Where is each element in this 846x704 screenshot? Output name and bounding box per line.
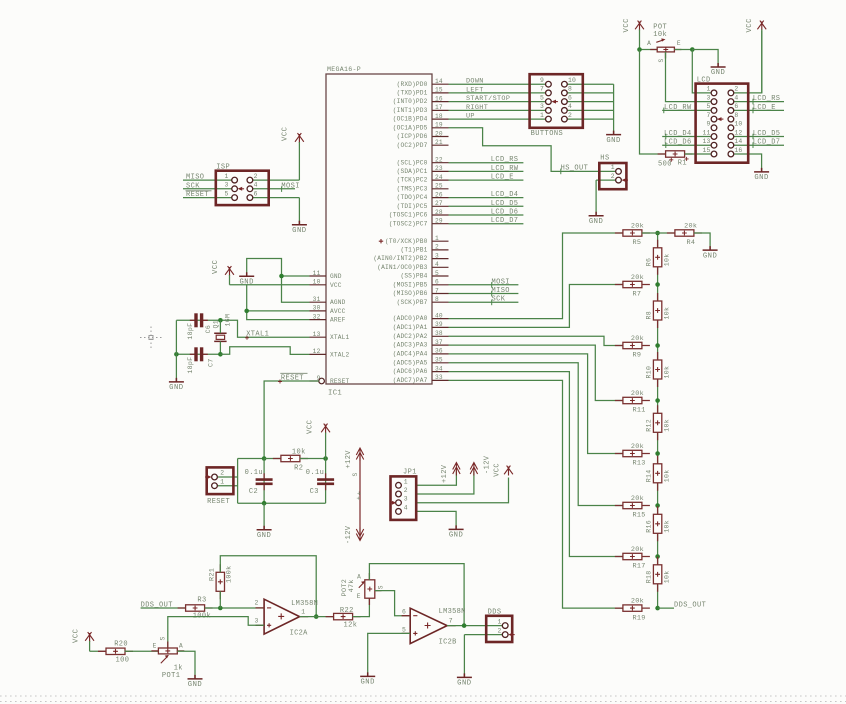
- svg-text:(OC1B)PD4: (OC1B)PD4: [393, 116, 428, 123]
- svg-text:Q1: Q1: [213, 320, 220, 329]
- svg-text:RESET: RESET: [330, 378, 349, 385]
- svg-text:HS: HS: [600, 155, 609, 163]
- svg-text:(ICP)PD6: (ICP)PD6: [397, 133, 428, 140]
- svg-text:C3: C3: [310, 488, 319, 496]
- svg-text:10k: 10k: [664, 571, 671, 584]
- svg-text:1: 1: [540, 112, 544, 119]
- svg-text:0.1u: 0.1u: [245, 469, 263, 477]
- svg-text:VCC: VCC: [307, 419, 315, 434]
- svg-text:R8: R8: [646, 311, 653, 320]
- svg-text:3: 3: [707, 94, 711, 101]
- svg-text:100k: 100k: [225, 565, 233, 583]
- svg-text:AGND: AGND: [330, 299, 346, 306]
- svg-text:38: 38: [435, 330, 443, 337]
- svg-text:20: 20: [435, 130, 443, 137]
- svg-text:IC1: IC1: [328, 390, 342, 398]
- svg-text:5: 5: [435, 270, 439, 277]
- svg-text:4: 4: [254, 182, 258, 189]
- svg-text:2: 2: [611, 173, 615, 180]
- svg-text:7: 7: [540, 86, 544, 93]
- svg-text:(AIN1/OC0)PB3: (AIN1/OC0)PB3: [377, 264, 427, 271]
- svg-text:-12V: -12V: [345, 525, 353, 544]
- svg-text:14: 14: [734, 138, 742, 145]
- svg-text:2: 2: [498, 627, 502, 634]
- svg-text:20k: 20k: [631, 335, 644, 343]
- svg-text:R14: R14: [646, 470, 653, 483]
- svg-text:(T1)PB1: (T1)PB1: [400, 247, 427, 254]
- svg-text:LCD_D4: LCD_D4: [664, 130, 692, 138]
- svg-text:MISO: MISO: [186, 174, 204, 182]
- svg-text:GND: GND: [703, 252, 717, 260]
- svg-text:2: 2: [568, 112, 572, 119]
- svg-text:5: 5: [540, 94, 544, 101]
- svg-text:37: 37: [435, 339, 443, 346]
- svg-text:(TXD)PD1: (TXD)PD1: [397, 90, 428, 97]
- svg-text:15: 15: [435, 87, 443, 94]
- svg-text:12: 12: [313, 348, 321, 355]
- svg-text:(TOSC2)PC7: (TOSC2)PC7: [389, 220, 428, 227]
- svg-text:MOSI: MOSI: [281, 182, 299, 190]
- svg-text:R2: R2: [294, 464, 303, 472]
- svg-text:IC2B: IC2B: [439, 639, 457, 647]
- svg-text:C7: C7: [207, 358, 214, 367]
- svg-text:GND: GND: [188, 681, 202, 689]
- svg-text:VCC: VCC: [73, 628, 81, 643]
- svg-text:4: 4: [404, 504, 408, 511]
- svg-text:DOWN: DOWN: [466, 78, 484, 86]
- svg-text:(TMS)PC3: (TMS)PC3: [397, 185, 428, 192]
- svg-text:GND: GND: [360, 679, 374, 687]
- svg-text:39: 39: [435, 321, 443, 328]
- svg-text:R11: R11: [633, 407, 646, 415]
- svg-text:LCD_D6: LCD_D6: [664, 139, 692, 147]
- svg-text:13: 13: [703, 138, 711, 145]
- svg-text:(TDO)PC4: (TDO)PC4: [397, 194, 428, 201]
- svg-text:20k: 20k: [631, 443, 644, 451]
- svg-text:4: 4: [734, 94, 738, 101]
- svg-text:16M: 16M: [225, 314, 232, 327]
- svg-text:SCK: SCK: [186, 182, 200, 190]
- svg-text:R19: R19: [633, 614, 646, 622]
- svg-text:1: 1: [404, 478, 408, 485]
- svg-text:1: 1: [225, 173, 229, 180]
- svg-text:XTAL2: XTAL2: [330, 351, 349, 358]
- svg-text:20k: 20k: [631, 390, 644, 398]
- svg-text:(ADC5)PA5: (ADC5)PA5: [393, 359, 428, 366]
- svg-text:LCD_RW: LCD_RW: [491, 165, 519, 173]
- svg-text:LM358N: LM358N: [291, 600, 318, 608]
- svg-text:35: 35: [435, 357, 443, 364]
- svg-text:E: E: [153, 643, 157, 650]
- svg-text:7: 7: [707, 112, 711, 119]
- svg-text:16: 16: [734, 147, 742, 154]
- svg-text:2: 2: [734, 86, 738, 93]
- svg-text:5: 5: [707, 103, 711, 110]
- svg-text:VCC: VCC: [282, 126, 290, 141]
- svg-text:R17: R17: [633, 563, 646, 571]
- svg-text:(AIN0/INT2)PB2: (AIN0/INT2)PB2: [373, 255, 427, 262]
- svg-text:2: 2: [220, 470, 224, 477]
- svg-text:3: 3: [540, 103, 544, 110]
- svg-text:8: 8: [435, 296, 439, 303]
- svg-text:33: 33: [435, 374, 443, 381]
- svg-text:VCC: VCC: [330, 282, 342, 289]
- svg-text:8: 8: [734, 112, 738, 119]
- svg-text:26: 26: [435, 191, 443, 198]
- svg-text:LCD_D7: LCD_D7: [491, 217, 519, 225]
- svg-text:8: 8: [568, 86, 572, 93]
- svg-text:12: 12: [734, 129, 742, 136]
- svg-text:GND: GND: [754, 174, 768, 182]
- svg-text:XTAL1: XTAL1: [330, 334, 349, 341]
- svg-text:3: 3: [225, 182, 229, 189]
- svg-text:LCD_RW: LCD_RW: [664, 104, 692, 112]
- svg-text:10k: 10k: [664, 254, 671, 267]
- svg-text:S: S: [160, 637, 167, 641]
- svg-text:GND: GND: [606, 137, 620, 145]
- svg-text:S: S: [658, 59, 665, 63]
- svg-text:(MOSI)PB5: (MOSI)PB5: [393, 281, 428, 288]
- svg-text:30: 30: [313, 305, 321, 312]
- svg-text:RIGHT: RIGHT: [466, 104, 488, 112]
- svg-text:6: 6: [402, 608, 406, 615]
- svg-text:GND: GND: [589, 218, 603, 226]
- svg-text:34: 34: [435, 365, 443, 372]
- svg-text:(RXD)PD0: (RXD)PD0: [397, 81, 428, 88]
- svg-text:R20: R20: [114, 641, 128, 649]
- svg-text:ISP: ISP: [216, 163, 230, 171]
- svg-text:4: 4: [568, 103, 572, 110]
- svg-text:LCD: LCD: [697, 76, 711, 84]
- svg-text:LCD_E: LCD_E: [753, 104, 776, 112]
- svg-text:1: 1: [611, 164, 615, 171]
- svg-text:(ADC7)PA7: (ADC7)PA7: [393, 377, 428, 384]
- svg-text:23: 23: [435, 165, 443, 172]
- svg-text:LCD_D7: LCD_D7: [753, 139, 781, 147]
- svg-text:10k: 10k: [664, 307, 671, 320]
- svg-text:10: 10: [313, 279, 321, 286]
- svg-text:START/STOP: START/STOP: [466, 95, 510, 103]
- svg-text:C6: C6: [205, 325, 212, 334]
- svg-text:19: 19: [435, 122, 443, 129]
- svg-text:SCK: SCK: [492, 296, 506, 304]
- svg-text:(TDI)PC5: (TDI)PC5: [397, 203, 428, 210]
- svg-text:10k: 10k: [292, 449, 306, 457]
- svg-text:(TOSC1)PC6: (TOSC1)PC6: [389, 212, 428, 219]
- svg-text:R22: R22: [340, 607, 354, 615]
- svg-text:R5: R5: [633, 239, 642, 247]
- svg-text:R10: R10: [646, 366, 653, 379]
- svg-text:25: 25: [435, 183, 443, 190]
- svg-text:13: 13: [313, 331, 321, 338]
- svg-text:6: 6: [254, 191, 258, 198]
- svg-text:2: 2: [435, 244, 439, 251]
- svg-text:R3: R3: [197, 597, 206, 605]
- svg-text:22: 22: [435, 157, 443, 164]
- svg-text:GND: GND: [292, 227, 306, 235]
- svg-text:LCD_D5: LCD_D5: [753, 130, 781, 138]
- svg-text:AREF: AREF: [330, 317, 346, 324]
- svg-text:DDS_OUT: DDS_OUT: [674, 601, 706, 609]
- svg-text:11: 11: [703, 129, 711, 136]
- svg-text:31: 31: [313, 296, 321, 303]
- svg-text:20k: 20k: [631, 598, 644, 606]
- svg-text:A: A: [647, 40, 651, 47]
- svg-text:10k: 10k: [664, 366, 671, 379]
- svg-text:LCD_D6: LCD_D6: [491, 209, 519, 217]
- svg-text:10k: 10k: [653, 31, 667, 39]
- svg-text:12k: 12k: [344, 622, 358, 630]
- svg-text:2: 2: [404, 487, 408, 494]
- svg-text:R7: R7: [633, 291, 642, 299]
- svg-text:18pF: 18pF: [187, 357, 194, 374]
- svg-text:+: +: [356, 496, 363, 500]
- svg-text:(SCL)PC0: (SCL)PC0: [397, 159, 428, 166]
- svg-text:LCD_RS: LCD_RS: [753, 95, 781, 103]
- svg-text:DDS: DDS: [488, 609, 502, 617]
- svg-text:LEFT: LEFT: [466, 86, 484, 94]
- svg-text:5: 5: [402, 627, 406, 634]
- svg-text:RESET: RESET: [281, 374, 304, 382]
- svg-text:(INT1)PD3: (INT1)PD3: [393, 107, 428, 114]
- svg-text:R1: R1: [678, 160, 687, 168]
- svg-text:2: 2: [254, 599, 258, 606]
- svg-text:100: 100: [116, 657, 130, 665]
- svg-text:(SS)PB4: (SS)PB4: [400, 273, 427, 280]
- svg-text:-12V: -12V: [483, 455, 491, 474]
- svg-text:MOSI: MOSI: [492, 278, 510, 286]
- svg-text:GND: GND: [449, 532, 463, 540]
- svg-text:27: 27: [435, 200, 443, 207]
- svg-text:VCC: VCC: [746, 18, 754, 33]
- svg-text:6: 6: [568, 94, 572, 101]
- svg-text:LCD_D5: LCD_D5: [491, 200, 519, 208]
- svg-text:15: 15: [703, 147, 711, 154]
- svg-text:1: 1: [707, 86, 711, 93]
- svg-text:(ADC0)PA0: (ADC0)PA0: [393, 315, 428, 322]
- svg-text:(OC2)PD7: (OC2)PD7: [397, 142, 428, 149]
- svg-text:28: 28: [435, 209, 443, 216]
- svg-text:47k: 47k: [348, 579, 356, 592]
- svg-text:9: 9: [707, 121, 711, 128]
- svg-text:14: 14: [435, 78, 443, 85]
- svg-text:20k: 20k: [631, 274, 644, 282]
- svg-text:R16: R16: [646, 520, 653, 533]
- svg-text:MEGA16-P: MEGA16-P: [327, 66, 361, 73]
- svg-text:9: 9: [540, 77, 544, 84]
- svg-text:5: 5: [225, 191, 229, 198]
- svg-text:1: 1: [301, 609, 305, 616]
- svg-text:R21: R21: [209, 568, 217, 581]
- svg-text:10: 10: [568, 77, 576, 84]
- svg-text:10k: 10k: [664, 520, 671, 533]
- svg-text:HS_OUT: HS_OUT: [561, 165, 589, 173]
- svg-text:21: 21: [435, 139, 443, 146]
- svg-text:S: S: [352, 473, 359, 477]
- svg-text:7: 7: [449, 618, 453, 625]
- svg-text:1: 1: [435, 235, 439, 242]
- svg-text:GND: GND: [330, 273, 342, 280]
- svg-text:VCC: VCC: [212, 259, 220, 274]
- svg-text:LCD_E: LCD_E: [491, 174, 514, 182]
- svg-text:18pF: 18pF: [187, 323, 194, 340]
- svg-text:3: 3: [435, 252, 439, 259]
- svg-text:C2: C2: [249, 488, 258, 496]
- svg-text:20k: 20k: [684, 223, 697, 231]
- svg-text:(MISO)PB6: (MISO)PB6: [393, 290, 428, 297]
- svg-text:10k: 10k: [664, 419, 671, 432]
- svg-text:32: 32: [313, 313, 321, 320]
- svg-text:MISO: MISO: [492, 287, 510, 295]
- svg-text:(INT0)PD2: (INT0)PD2: [393, 98, 428, 105]
- svg-text:(SDA)PC1: (SDA)PC1: [397, 168, 428, 175]
- svg-text:UP: UP: [466, 113, 475, 121]
- svg-text:R4: R4: [687, 239, 696, 247]
- svg-text:(ADC2)PA2: (ADC2)PA2: [393, 333, 428, 340]
- svg-text:(ADC3)PA3: (ADC3)PA3: [393, 342, 428, 349]
- svg-text:R12: R12: [646, 419, 653, 432]
- svg-text:10: 10: [734, 121, 742, 128]
- svg-text:(ADC6)PA6: (ADC6)PA6: [393, 368, 428, 375]
- svg-text:0.1u: 0.1u: [306, 469, 324, 477]
- svg-text:LCD_D4: LCD_D4: [491, 191, 519, 199]
- svg-text:11: 11: [313, 270, 321, 277]
- svg-text:3: 3: [254, 618, 258, 625]
- svg-text:R18: R18: [646, 571, 653, 584]
- svg-text:1: 1: [498, 618, 502, 625]
- svg-text:GND: GND: [169, 384, 183, 392]
- svg-text:IC2A: IC2A: [290, 630, 309, 638]
- svg-text:GND: GND: [457, 680, 471, 688]
- svg-text:GND: GND: [257, 532, 271, 540]
- svg-text:20k: 20k: [631, 223, 644, 231]
- svg-text:20k: 20k: [631, 546, 644, 554]
- svg-text:17: 17: [435, 104, 443, 111]
- svg-text:16: 16: [435, 95, 443, 102]
- svg-text:BUTTONS: BUTTONS: [531, 130, 564, 138]
- svg-text:3: 3: [404, 496, 408, 503]
- svg-text:(T0/XCK)PB0: (T0/XCK)PB0: [385, 238, 428, 245]
- svg-text:+12V: +12V: [441, 464, 449, 483]
- svg-text:1: 1: [220, 478, 224, 485]
- svg-text:POT1: POT1: [162, 672, 180, 680]
- svg-text:24: 24: [435, 174, 443, 181]
- svg-text:DDS_OUT: DDS_OUT: [141, 601, 173, 609]
- svg-text:VCC: VCC: [623, 18, 631, 33]
- svg-text:6: 6: [435, 279, 439, 286]
- svg-text:29: 29: [435, 218, 443, 225]
- svg-text:A: A: [179, 643, 183, 650]
- svg-text:7: 7: [435, 287, 439, 294]
- svg-text:R15: R15: [633, 512, 646, 520]
- svg-text:500: 500: [658, 161, 672, 169]
- svg-text:E: E: [357, 593, 361, 600]
- svg-text:LM358N: LM358N: [439, 608, 466, 616]
- svg-text:(SCK)PB7: (SCK)PB7: [397, 299, 428, 306]
- svg-text:10k: 10k: [664, 470, 671, 483]
- svg-text:A: A: [357, 574, 361, 581]
- svg-text:6: 6: [734, 103, 738, 110]
- svg-text:R13: R13: [633, 460, 646, 468]
- svg-text:2: 2: [254, 173, 258, 180]
- svg-text:(TCK)PC2: (TCK)PC2: [397, 177, 428, 184]
- svg-text:AVCC: AVCC: [330, 308, 346, 315]
- svg-text:4: 4: [435, 261, 439, 268]
- svg-text:JP1: JP1: [403, 469, 417, 477]
- svg-text:GND: GND: [711, 69, 725, 77]
- svg-text:18: 18: [435, 113, 443, 120]
- svg-text:20k: 20k: [631, 495, 644, 503]
- svg-text:LCD_RS: LCD_RS: [491, 156, 519, 164]
- svg-text:S: S: [377, 585, 384, 589]
- svg-text:R9: R9: [633, 352, 642, 360]
- svg-text:36: 36: [435, 348, 443, 355]
- svg-text:VCC: VCC: [494, 463, 502, 477]
- svg-text:(ADC4)PA4: (ADC4)PA4: [393, 351, 428, 358]
- svg-text:+12V: +12V: [345, 450, 353, 469]
- svg-text:(ADC1)PA1: (ADC1)PA1: [393, 324, 428, 331]
- svg-text:R6: R6: [646, 258, 653, 267]
- svg-text:(OC1A)PD5: (OC1A)PD5: [393, 124, 428, 131]
- svg-text:RESET: RESET: [207, 498, 230, 506]
- svg-text:E: E: [677, 40, 681, 47]
- svg-text:XTAL1: XTAL1: [246, 330, 269, 338]
- svg-text:RESET: RESET: [186, 191, 209, 199]
- svg-text:40: 40: [435, 312, 443, 319]
